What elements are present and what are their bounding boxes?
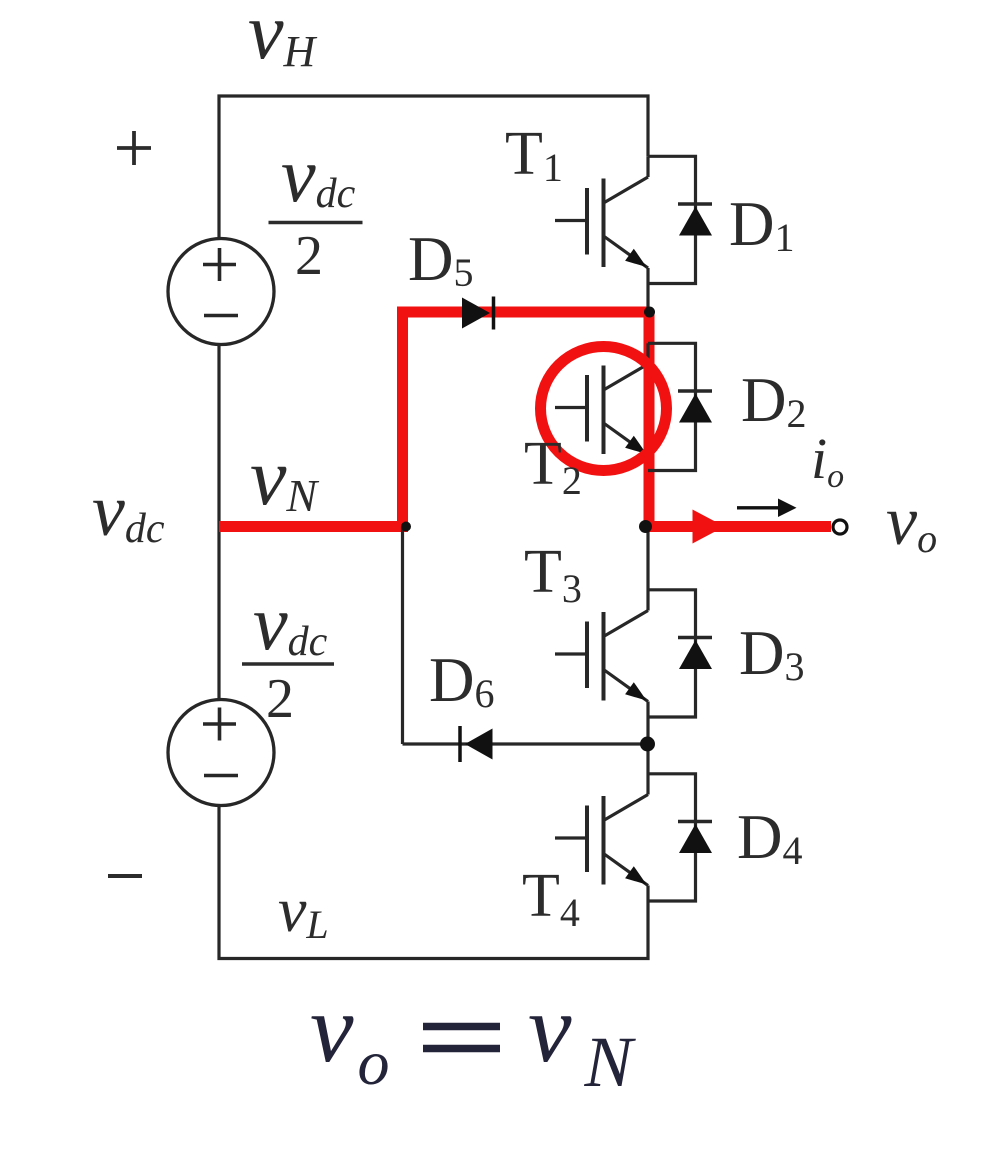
svg-text:vdc: vdc xyxy=(281,131,356,218)
svg-text:vo: vo xyxy=(886,483,937,561)
wire clamp vertical lower (black) xyxy=(401,527,404,745)
wire vN red horizontal xyxy=(219,521,406,532)
svg-text:vdc: vdc xyxy=(92,470,165,552)
svg-text:T1: T1 xyxy=(505,120,563,190)
wire red T2 branch vertical xyxy=(644,312,655,527)
svg-text:D6: D6 xyxy=(429,645,495,716)
label - polarity xyxy=(108,874,142,878)
transistor T1 xyxy=(555,156,648,312)
diode D6 xyxy=(460,726,493,762)
svg-text:2: 2 xyxy=(295,225,323,287)
svg-text:2: 2 xyxy=(266,668,294,730)
svg-text:D2: D2 xyxy=(741,365,807,436)
red circle highlighting T2 xyxy=(541,347,667,471)
wire D6 horizontal xyxy=(403,742,649,745)
equation vo = vN xyxy=(310,975,637,1102)
svg-text:vdc: vdc xyxy=(253,579,328,666)
node junction dot output xyxy=(639,520,652,533)
output open terminal circle xyxy=(833,520,847,534)
label + polarity xyxy=(117,131,151,165)
node junction dot vN xyxy=(401,522,411,532)
diode D1 xyxy=(648,156,712,283)
svg-text:D3: D3 xyxy=(739,618,805,689)
wire red vertical clamp up xyxy=(397,307,408,533)
svg-text:D5: D5 xyxy=(408,224,474,295)
source V1 vdc/2 upper xyxy=(168,239,274,345)
svg-text:T2: T2 xyxy=(524,430,582,503)
diode D4 xyxy=(648,774,712,901)
svg-text:vN: vN xyxy=(250,431,319,522)
svg-text:vL: vL xyxy=(278,874,329,947)
svg-text:vH: vH xyxy=(248,0,318,76)
wire left rail lower + bottom rail xyxy=(219,806,648,959)
red arrowhead on output wire xyxy=(693,510,725,544)
label vdc/2 lower xyxy=(242,579,334,730)
node junction dot D6/T3-T4 xyxy=(640,737,655,752)
diode D2 xyxy=(648,343,712,470)
source V2 vdc/2 lower xyxy=(168,700,274,806)
wire red output horizontal xyxy=(648,521,831,532)
label vdc/2 upper xyxy=(269,131,363,287)
io current arrow xyxy=(737,499,797,518)
red highlighted path xyxy=(219,307,831,533)
wire red D5 horizontal xyxy=(403,307,650,318)
svg-text:vo: vo xyxy=(310,975,390,1098)
svg-text:D1: D1 xyxy=(729,189,795,260)
svg-text:vN: vN xyxy=(528,975,637,1102)
node junction dot D5/T1 emitter xyxy=(644,307,655,318)
diode D5 (on red wire) xyxy=(462,297,494,330)
svg-text:T3: T3 xyxy=(524,538,582,611)
transistor T2 xyxy=(555,343,648,455)
transistor T4 xyxy=(555,744,648,886)
wire left rail middle segment xyxy=(217,345,220,699)
wire top rail vH xyxy=(219,96,648,239)
diode D3 xyxy=(648,590,712,717)
svg-text:io: io xyxy=(811,426,844,495)
transistor T3 xyxy=(555,527,648,745)
svg-text:D4: D4 xyxy=(737,802,803,873)
svg-text:T4: T4 xyxy=(522,862,580,935)
